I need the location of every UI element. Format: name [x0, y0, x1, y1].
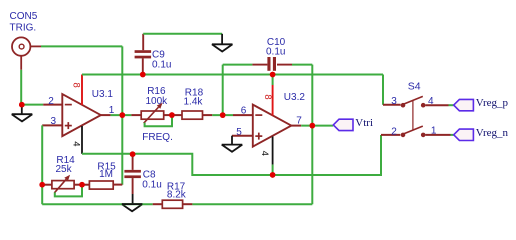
ground at TRIG node	[21, 107, 23, 115]
svg-text:0.1u: 0.1u	[142, 179, 161, 190]
svg-text:25k: 25k	[56, 164, 73, 175]
svg-text:4: 4	[71, 141, 82, 146]
lead R14 right / R15 left	[74, 184, 89, 186]
pin stub U3.1 pin 1	[101, 114, 111, 116]
wire wiper of R16 to right terminal	[145, 115, 172, 126]
capacitor C8	[132, 154, 134, 170]
wire bottom rail right	[192, 203, 312, 205]
pin stub U3.1 pin 2	[43, 104, 62, 106]
wire V+ rail down to S4 pin3	[382, 75, 384, 105]
ground symbol under TRIG node	[12, 114, 33, 121]
wire pin3 riser down to bottom rail	[41, 125, 43, 204]
net tag Vtri	[333, 119, 353, 130]
junction C9/V+ rail	[140, 72, 146, 78]
pin stub S4 pin 4 out	[426, 104, 449, 106]
wire bottom rail left	[42, 203, 153, 205]
contact S4 pin1	[403, 126, 423, 134]
svg-text:U3.2: U3.2	[284, 92, 306, 103]
op-amp U3.1	[62, 94, 101, 136]
net tag Vreg_n	[454, 129, 474, 140]
wire V- rail	[82, 135, 381, 175]
svg-text:U3.1: U3.1	[92, 89, 114, 100]
lead R17 right	[183, 203, 193, 205]
svg-text:2: 2	[48, 96, 54, 107]
pin stub S4 pin 2	[381, 134, 400, 136]
wire pin1 to R16	[111, 114, 132, 116]
pin 8 stub U3.2	[272, 75, 274, 86]
pin 4 stub U3.2	[272, 137, 274, 165]
resistor R16 (pot) body	[141, 111, 164, 119]
wire wiper of R14 tie	[55, 185, 82, 197]
svg-text:6: 6	[241, 106, 247, 117]
net tag Vreg_p	[454, 99, 474, 110]
junction C8 top/V- rail	[130, 151, 136, 157]
lead R14 left	[42, 184, 52, 186]
ground symbol top (C9)	[212, 44, 233, 51]
resistor R14 (pot) body	[52, 181, 74, 189]
lead R16 right	[164, 114, 172, 116]
svg-text:8.2k: 8.2k	[167, 189, 187, 200]
svg-text:Vreg_n: Vreg_n	[476, 127, 509, 139]
wire C10 left branch riser	[222, 65, 224, 116]
wiper arrow R14	[54, 179, 66, 192]
op-amp U3.2	[253, 105, 291, 147]
junction dots overlay	[19, 102, 25, 108]
capacitor C10	[252, 64, 267, 66]
wire V+ rail y=74.5	[82, 74, 383, 76]
lead R18 right	[203, 114, 213, 116]
ground bar overlay on bottom rail	[122, 203, 143, 205]
junction U3.2 output node	[310, 123, 316, 129]
wire output riser	[311, 126, 313, 205]
wire feedback riser x=122	[121, 46, 123, 184]
lever top pole	[401, 133, 406, 138]
junction pin1/feedback riser	[120, 112, 126, 118]
pin stub U3.1 pin 3	[42, 124, 62, 126]
pin 8 stub U3.1	[81, 75, 83, 106]
svg-text:S4: S4	[408, 80, 421, 92]
wire pin7 to Vtri tag	[301, 125, 333, 127]
svg-text:1M: 1M	[99, 169, 113, 180]
junction U3.2 pin4/V- rail	[270, 172, 276, 178]
pin stub U3.2 pin 5	[232, 135, 253, 137]
svg-text:1.4k: 1.4k	[184, 97, 204, 108]
pin stub U3.2 pin 6	[233, 114, 253, 116]
resistor R15 body	[89, 181, 113, 189]
ground symbol at U3.2 pin5	[222, 145, 243, 152]
wire to Vreg_p tag	[449, 104, 454, 106]
pin 4 stub U3.1	[81, 126, 83, 154]
svg-text:8: 8	[71, 83, 82, 88]
capacitor C8 plates	[124, 170, 140, 173]
contact S4 pin2	[421, 133, 426, 138]
lead R18 left	[172, 114, 182, 116]
contact S4 pin4	[403, 96, 423, 104]
junction R14 left/riser	[39, 182, 45, 188]
lead R16 left	[131, 114, 141, 116]
svg-text:0.1u: 0.1u	[266, 46, 285, 57]
svg-text:Vreg_p: Vreg_p	[476, 97, 509, 109]
svg-text:2: 2	[391, 126, 397, 137]
wire connector to feedback riser	[41, 45, 122, 47]
ground symbol under C8	[122, 204, 143, 211]
lead R17 left	[153, 203, 163, 205]
wire connector down to node	[20, 70, 22, 105]
svg-text:FREQ.: FREQ.	[142, 132, 173, 143]
wire C10 right horizontal	[292, 64, 312, 66]
pin stub S4 pin 1 out	[426, 134, 451, 136]
wiper arrow R16	[144, 107, 159, 123]
ground stem near C9	[221, 34, 223, 45]
svg-text:8: 8	[262, 94, 273, 99]
svg-text:0.1u: 0.1u	[152, 60, 171, 71]
svg-text:100k: 100k	[146, 96, 169, 107]
ground stem pin5	[231, 136, 233, 145]
svg-text:4: 4	[259, 151, 270, 156]
svg-text:Vtri: Vtri	[355, 117, 373, 129]
lever bottom pole	[412, 101, 414, 130]
svg-text:CON5: CON5	[10, 11, 38, 22]
connector CON5 (TRIG input)	[12, 37, 30, 55]
contact S4 pin3	[421, 103, 426, 108]
svg-text:TRIG.: TRIG.	[10, 23, 37, 34]
wire C9 top to ground	[143, 33, 222, 35]
capacitor C9 plates	[135, 50, 152, 53]
resistor R18 body	[182, 111, 203, 119]
pin stub U3.2 pin 7	[291, 125, 301, 127]
wire C10 left horizontal	[223, 64, 253, 66]
junction node TRIG/gnd/pin2	[19, 102, 25, 108]
junction R16/R18/wiper	[169, 112, 175, 118]
wire node to U3.1 pin2	[21, 104, 43, 106]
capacitor C9	[142, 34, 144, 50]
resistor R17 body	[162, 200, 182, 208]
wire C10 right riser to output	[311, 65, 313, 126]
junction R14/R15/wiper	[79, 182, 85, 188]
junction U3.2 pin8/V+ rail	[270, 72, 276, 78]
svg-text:3: 3	[51, 116, 57, 127]
pin stub S4 pin 3	[383, 104, 401, 106]
lead R15 right	[113, 184, 122, 186]
junction R18/C10 branch	[220, 112, 226, 118]
wire to Vreg_n tag	[451, 134, 454, 136]
svg-text:3: 3	[391, 96, 397, 107]
wire R18 to U3.2 pin6	[212, 114, 233, 116]
